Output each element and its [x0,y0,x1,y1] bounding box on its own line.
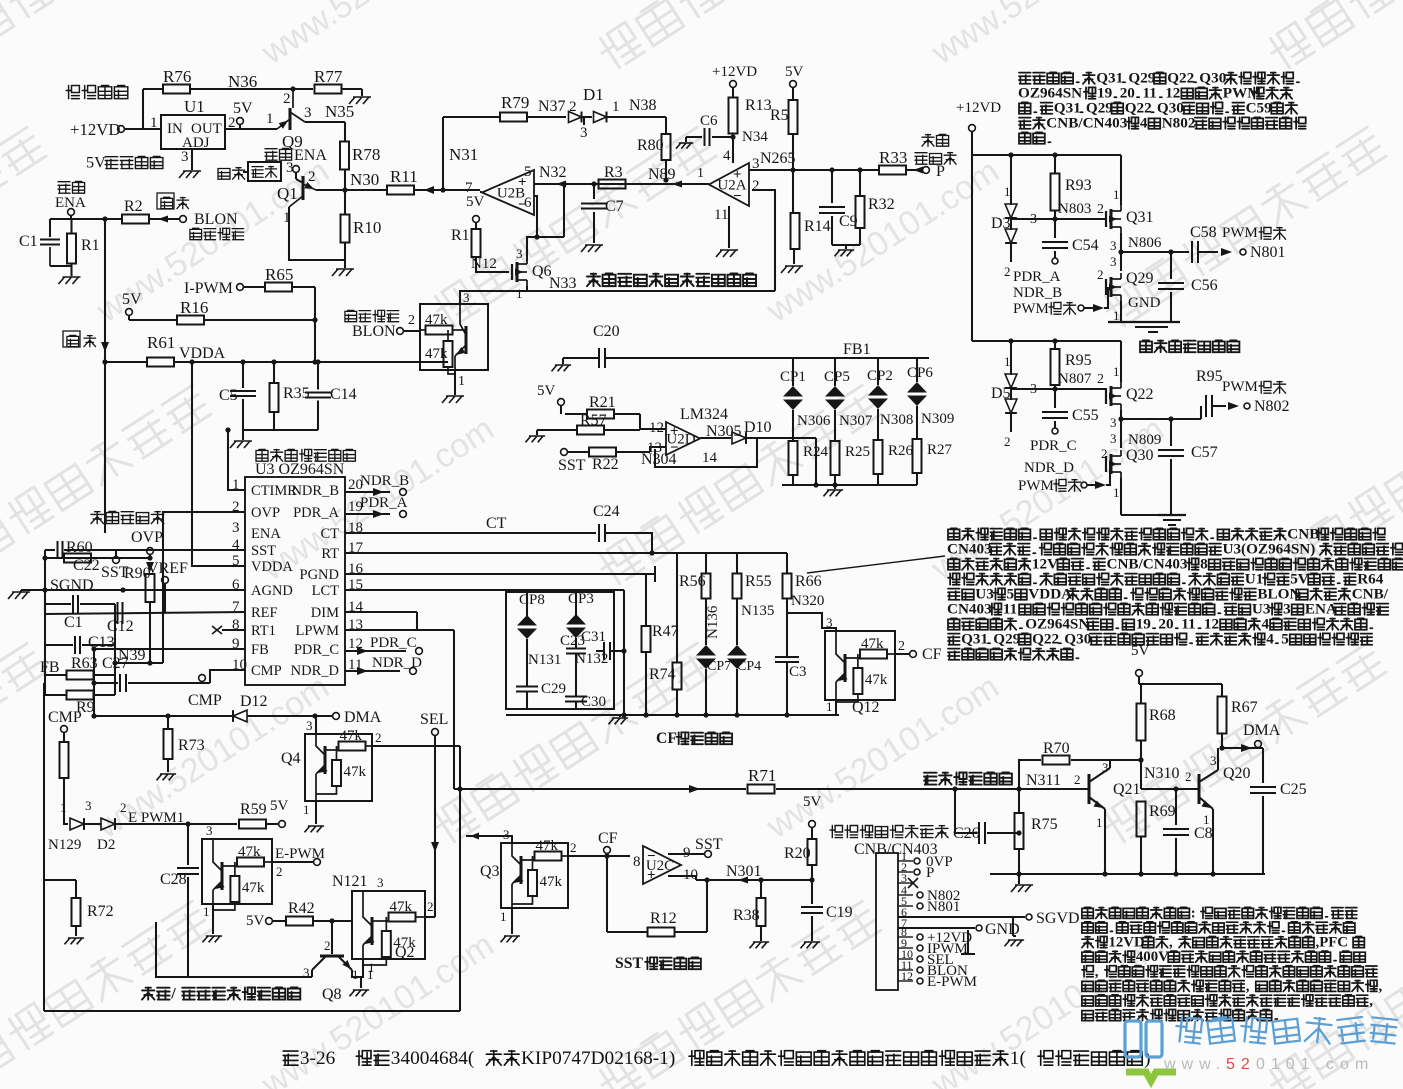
wire r79 row [443,116,500,118]
svg-text:N136: N136 [705,605,721,639]
resistor cmp-div [60,742,69,817]
capacitor C12 [107,602,134,635]
svg-text:CF: CF [598,830,618,847]
resistor R1b [451,227,481,257]
svg-text:N307: N307 [839,413,873,429]
terminal OVP [146,548,154,572]
svg-text:BLON: BLON [352,323,396,340]
text OVP [131,529,163,546]
logo script text [1175,1016,1397,1043]
node +12VD c [956,100,1001,341]
capacitor C24 [593,503,652,553]
text 过电流保护 r [915,134,956,164]
transistor Q20 [1185,748,1251,827]
svg-text:N12: N12 [471,256,497,272]
svg-text:N309: N309 [921,411,954,427]
resistor R13 [729,97,772,134]
svg-text:R5: R5 [770,107,789,124]
wire R77 right [341,89,362,96]
capacitor C25 [1240,748,1307,874]
text D3 [991,215,1011,232]
svg-text:R22: R22 [592,456,619,473]
wire q31 drain2 [0,0,1,1]
wire rt rail [345,550,787,574]
svg-text:2: 2 [570,840,577,855]
wire q20 emitter [1212,809,1214,874]
svg-text:R95: R95 [1196,368,1223,385]
svg-text:R20: R20 [784,845,811,862]
text PWM脉冲 d [1222,379,1286,395]
svg-text:C6: C6 [700,113,718,129]
wire bottom rail cf [506,712,839,717]
wire q6 drain up [527,181,567,261]
diode D5b [1005,399,1017,413]
wire q29 src [1120,301,1122,322]
svg-text:+12VD: +12VD [70,120,120,139]
svg-text:Q4: Q4 [281,750,301,767]
svg-text:3: 3 [826,615,833,630]
wire n807 row [1011,371,1107,392]
svg-text:47k: 47k [425,346,448,362]
ground g11 [781,266,803,273]
wire n39 link [112,604,163,675]
wire fb1 top rail [775,358,929,386]
wire u2a gnd [728,206,730,248]
wire fb col [93,649,95,716]
element CP3 [566,591,594,638]
resistor R56 [679,573,711,599]
wire q6 src down [526,286,528,291]
mosfet Q29 [1097,254,1161,323]
svg-text:E-PWM: E-PWM [927,974,977,990]
box dim bottom [44,1010,460,1012]
svg-text:,PFC: ,PFC [1316,935,1348,951]
wire d3 mid [1011,212,1037,230]
resistor R61 [147,333,175,367]
svg-text:CP5: CP5 [824,369,850,385]
svg-text:2: 2 [232,499,240,515]
svg-text:C3: C3 [789,664,807,680]
wire d3 col top [1010,155,1012,205]
resistor R38 [733,877,766,941]
svg-text:CP7: CP7 [707,659,731,674]
svg-text:VDDA: VDDA [1028,586,1072,603]
text u2c 8 [633,854,641,870]
resistor R69 [1137,802,1176,875]
svg-text:R16: R16 [180,298,208,317]
svg-text:www.: www. [1163,1056,1226,1073]
resistor R90 [124,565,155,602]
svg-text:N809: N809 [1128,432,1161,448]
svg-text:CMP: CMP [188,692,222,709]
resistor R33 [879,148,907,175]
opamp U2D [666,422,700,456]
resistor R79 [500,93,529,122]
ic U3 box [245,477,345,685]
wire d3 bot [1004,243,1011,279]
wire vdda pin5 [189,359,245,566]
wire left bus [44,558,46,612]
svg-text:6: 6 [524,195,532,211]
resistor R24 [789,410,829,485]
svg-text:R10: R10 [353,218,381,237]
text N131 N132 [528,651,608,668]
svg-text:5: 5 [1281,631,1289,648]
svg-text:VREF: VREF [147,560,188,577]
svg-text:SST: SST [251,543,276,559]
svg-text:LPWM: LPWM [296,623,340,639]
capacitor C3 [775,599,807,716]
capacitor C28 [160,824,199,977]
svg-text:Q22: Q22 [1126,386,1154,403]
svg-text:1: 1 [150,115,158,131]
svg-text:PDR_C: PDR_C [1030,438,1077,454]
resistor R25 [831,410,871,485]
svg-text:N311: N311 [1026,772,1061,789]
svg-text:2: 2 [427,899,434,914]
text U1 [184,97,205,116]
terminal CF2 [598,830,618,859]
terminal VREF [147,560,188,612]
wire ref row [45,590,245,614]
wire rail gnd stub [1018,874,1020,884]
svg-text:IN: IN [167,121,183,137]
svg-text:CNB/: CNB/ [1352,586,1389,603]
diode D12 [233,710,247,722]
svg-text:VDDA: VDDA [179,345,226,362]
wire drv2 gnd rail [1121,515,1186,525]
svg-text:47k: 47k [390,899,413,915]
svg-text::: : [1191,905,1196,921]
svg-text:PGND: PGND [300,567,339,583]
text FB1 [843,341,871,358]
svg-text:SST: SST [101,564,129,581]
svg-text:N89: N89 [648,166,676,183]
svg-text:R67: R67 [1231,699,1258,716]
svg-text:14: 14 [702,450,718,466]
terminal SST3 [668,836,723,857]
svg-text:SST: SST [615,955,643,972]
svg-text:1: 1 [516,286,523,301]
capacitor C57 [1158,419,1218,515]
resistor R11 [387,167,418,195]
ground g16 [609,715,629,724]
svg-text:5V: 5V [246,913,265,929]
ground g17 [157,774,177,780]
text N311 [1026,772,1061,789]
svg-text:FB: FB [251,642,269,658]
wire r61 row [102,359,448,364]
wire r33-P [906,167,923,174]
terminal pdra [1052,258,1058,264]
transistor Q8 [303,921,374,1003]
capacitor C54 [1042,219,1099,258]
text N265 [760,150,796,173]
diode D1b [594,99,620,123]
wire q30 src [1120,478,1122,515]
svg-text:R66: R66 [795,573,822,590]
svg-text:12V: 12V [1032,556,1058,573]
svg-text:CP8: CP8 [519,592,545,608]
svg-text:R1: R1 [451,227,470,244]
wire n320 tap [787,613,836,631]
svg-text:52: 52 [1226,1056,1256,1073]
svg-text:Q12: Q12 [852,699,880,716]
svg-text:R68: R68 [1149,707,1176,724]
svg-text:47k: 47k [425,312,448,328]
wire U1 out [225,128,277,130]
opamp U2A [709,163,749,206]
wire d10 out [747,438,819,488]
ground g14 [824,490,844,496]
wire R76 left [143,89,163,129]
svg-text:D2: D2 [97,837,115,853]
text SEL1 [420,711,448,728]
connector pin12 E-PWM [917,974,977,990]
wire pin2 fb [0,0,1,1]
svg-text:CNB/CN403: CNB/CN403 [1046,115,1127,132]
svg-text:1: 1 [367,967,374,982]
node 5V q21 [1131,643,1150,684]
capacitor C14 [305,362,357,430]
text D1 [583,85,604,104]
connector pin4 N802 [917,888,960,904]
resistor R1a [67,234,100,264]
svg-text:N801: N801 [1250,244,1286,261]
svg-text:U1: U1 [184,97,205,116]
wire n121 emitter [361,959,363,977]
terminal BLON [180,216,187,223]
terminal DMA1 [333,709,382,726]
svg-text:N301: N301 [726,863,762,880]
svg-text:2: 2 [324,938,331,953]
wire pin1 link [225,427,245,490]
svg-text:1: 1 [1113,187,1120,202]
svg-text:/: / [170,985,176,1003]
svg-text:1: 1 [826,699,833,714]
wire N36 [190,86,313,91]
svg-text:N304: N304 [641,451,677,468]
resistor R75 [1015,789,1058,874]
connector pin5 N801 [917,899,960,915]
connector pin3 X [908,878,918,888]
terminal SST1 [101,550,129,581]
svg-text:REF: REF [251,605,278,621]
wire 保护-正常 link [243,171,248,173]
text FB a [40,659,60,676]
wire q4 collector [315,716,317,734]
diode D2 [97,800,127,853]
capacitor C9 [819,170,858,245]
svg-text:N121: N121 [332,873,368,890]
wire r16 row [129,317,318,322]
svg-text:,: , [1095,964,1099,980]
svg-text:CP1: CP1 [780,369,806,385]
resistor R93 [1051,155,1092,219]
connector pin9 IPWM [917,941,968,957]
ground g6 [8,590,30,599]
resistor R70 [1019,740,1144,789]
wire ena row [71,216,122,221]
text N37 [538,98,577,115]
svg-text:2: 2 [283,91,291,107]
terminal ena2 [68,209,75,219]
text PWM脉冲 a [1013,300,1076,317]
svg-text:R80: R80 [637,137,664,154]
svg-text:CN403: CN403 [947,541,992,558]
capacitor C5 [219,362,256,430]
node +12VD [70,120,161,139]
svg-text:Q29: Q29 [1126,270,1154,287]
mosfet Q6 [512,246,552,301]
ground g21 [65,938,85,944]
ground g26 [1011,885,1033,892]
resistor R10 [341,215,382,243]
svg-text:5V: 5V [466,194,485,210]
text 5V a [233,100,253,129]
svg-text:D10: D10 [744,419,772,436]
text U2A pins [714,148,760,223]
svg-text:2: 2 [752,178,760,194]
wire u2d out [700,437,731,439]
svg-text:CTIMR: CTIMR [251,483,297,499]
svg-text:47k: 47k [340,728,363,744]
diode D3a [1004,184,1017,218]
svg-text:1: 1 [1113,308,1120,323]
svg-text:NDR_D: NDR_D [291,663,339,679]
svg-text:2: 2 [1097,372,1104,387]
svg-text:SGND: SGND [50,577,94,594]
wire r80 col [665,117,667,135]
wire r3-u2a [626,166,709,188]
transistor Q21 [1074,760,1141,830]
svg-text:3: 3 [286,160,294,176]
svg-text:CN403: CN403 [947,601,992,618]
svg-text:1: 1 [266,111,274,127]
text 开启控制 BLON [345,310,399,340]
mosfet Q30 [1101,431,1154,500]
text CNB/CN403 [854,841,938,858]
capacitor C19 [801,880,853,941]
capacitor C20 [563,323,775,368]
svg-text:C29: C29 [541,681,566,697]
wire q8 emitter [352,970,361,988]
wire n310 row [1141,786,1199,791]
ground g19 [203,936,223,942]
opamp U2C [643,846,681,884]
svg-text:3: 3 [85,798,92,813]
svg-text:DMA: DMA [344,709,382,726]
svg-text:5: 5 [524,164,532,180]
wire r90 down [147,602,152,666]
resistor R78 [340,142,380,170]
wire pin2 route [163,512,245,663]
wire r79-d1 [527,116,566,118]
transistor Q3 box [480,827,568,924]
svg-text:R27: R27 [927,442,953,458]
capacitor C29 [516,639,566,709]
svg-text:BLON: BLON [194,211,238,228]
svg-text:2: 2 [1004,434,1011,449]
capacitor C59 [1196,368,1239,417]
text paragraph 激励电路 [1018,70,1306,144]
ground g1 [349,97,371,104]
wire q21 emitter [1104,809,1106,874]
connector CNB box [876,853,898,990]
svg-text:3: 3 [206,823,213,838]
text 小板与大板连接器 [830,826,948,838]
svg-text:34004684(: 34004684( [391,1048,475,1069]
svg-text:R57: R57 [580,412,607,429]
svg-text:E PWM1: E PWM1 [128,810,184,826]
wire n304 loop [641,438,757,468]
resistor R68 [1137,684,1176,789]
terminal P [923,163,945,180]
svg-text:KIP0747D02168-1): KIP0747D02168-1) [521,1048,675,1069]
svg-text:5V: 5V [537,383,556,399]
text 开启控制1 [190,228,244,239]
svg-text:8: 8 [633,854,641,870]
text 调光控制电路 [924,773,1012,785]
svg-text:PDR_A: PDR_A [360,495,408,511]
svg-text:N31: N31 [449,145,478,164]
wire n265 row [749,167,879,172]
transistor Q4 box [281,718,372,817]
svg-text:E-PWM: E-PWM [275,846,325,862]
svg-text:R13: R13 [745,97,772,114]
wire c5 bottom rail [243,430,318,440]
resistor R55 [733,573,772,599]
text N39 [118,647,146,664]
wire r47 top [646,573,655,575]
svg-text:3: 3 [580,125,588,141]
svg-text:Q21: Q21 [1113,781,1141,798]
element CP5 [824,369,850,410]
svg-text:C57: C57 [1191,444,1218,461]
resistor R80 [637,134,671,160]
svg-text:2: 2 [120,800,127,815]
capacitor C55 [1042,389,1099,428]
node 5V e [537,383,564,414]
wire epwm box emitter [212,904,214,934]
connector pin8 +12VD [917,930,972,946]
wire r70 right [1110,759,1141,761]
svg-text:R11: R11 [390,167,418,186]
svg-text:LM324: LM324 [680,406,728,423]
resistor R67 [1218,684,1258,751]
svg-text:11: 11 [714,207,728,223]
text 5V b [122,291,142,320]
svg-text:Q31: Q31 [961,631,988,648]
svg-text:1: 1 [1113,485,1120,500]
svg-text:CMP: CMP [48,709,82,726]
node PDR_C out [345,635,422,655]
svg-text:PWM: PWM [1018,478,1054,494]
wire r13 down [730,134,735,164]
svg-text:N131: N131 [528,652,561,668]
terminal pwm2 [1081,464,1110,489]
svg-text:N36: N36 [228,72,257,91]
svg-text:P: P [936,163,945,180]
svg-text:Q1: Q1 [277,184,298,203]
svg-text:1: 1 [697,166,704,181]
ground g20 [350,990,370,996]
svg-text:N135: N135 [741,603,774,619]
svg-text:3: 3 [1110,415,1117,430]
svg-text:47k: 47k [536,838,559,854]
text U3 OZ964SN [255,461,345,478]
svg-text:,: , [1246,978,1250,994]
